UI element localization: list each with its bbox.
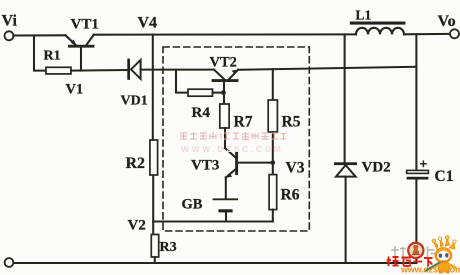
svg-text:VT2: VT2 [210, 55, 237, 71]
transistor VT3 [225, 148, 237, 199]
terminal Vi [5, 31, 14, 40]
resistor R4 [188, 89, 213, 96]
svg-text:WWW.DZSC.COM: WWW.DZSC.COM [181, 144, 284, 154]
wire top rail left [13, 34, 65, 36]
watermark pink center line1 [180, 132, 287, 140]
terminal ground left [5, 258, 14, 267]
svg-text:R6: R6 [281, 187, 300, 204]
watermark red text search [387, 257, 433, 267]
junction dot VT2 base [221, 90, 226, 95]
wire Vi drop to R1 [34, 36, 46, 71]
wire R3 to bottom rail [154, 257, 156, 263]
svg-text:V3: V3 [286, 160, 305, 177]
transistor VT2 [213, 70, 238, 93]
svg-text:V1: V1 [66, 82, 84, 98]
diode VD1 [127, 59, 140, 80]
svg-text:R7: R7 [234, 114, 253, 131]
wire bottom rail [13, 262, 416, 264]
resistor R2 [150, 140, 158, 175]
svg-text:R1: R1 [44, 49, 61, 64]
resistor R3 [151, 235, 158, 258]
resistor R7 [220, 104, 229, 128]
diode VD2 [334, 162, 357, 263]
wire VD2 drop from rail [344, 34, 346, 162]
svg-text:GB: GB [182, 197, 203, 213]
wire R7 to VT3 collector [224, 128, 226, 148]
dashed regulator box [163, 47, 309, 231]
svg-text:R5: R5 [282, 114, 301, 131]
wire top rail mid [94, 33, 356, 35]
wire node V2 horizontal [153, 220, 273, 222]
svg-text:VT3: VT3 [191, 158, 219, 174]
wire R5 to R6 [272, 132, 274, 175]
wire R6 bottom tick [272, 210, 274, 222]
watermark gray ghost text left [392, 246, 408, 259]
terminal Vo [450, 29, 459, 38]
svg-text:R4: R4 [192, 105, 211, 121]
wire VT3 base to divider [238, 162, 273, 164]
wire R4 to base dot [213, 92, 222, 94]
capacitor C1 [407, 161, 429, 263]
wire VT2 emitter to output node [238, 67, 416, 70]
wire R5 top lead [272, 69, 274, 100]
resistor R6 [269, 175, 277, 210]
wire node V4 vertical [152, 35, 154, 141]
wire output node drop [415, 34, 417, 170]
svg-text:VD2: VD2 [362, 160, 391, 176]
svg-text:C1: C1 [435, 168, 454, 185]
inductor L1 [350, 22, 406, 35]
watermark gray ghost text right [428, 246, 441, 258]
wire collector drop to R4 [176, 70, 188, 93]
wire base dot to R7 [223, 93, 225, 104]
wire top rail right [404, 33, 450, 35]
svg-text:Vo: Vo [438, 13, 456, 30]
watermark stamp circle [408, 243, 423, 258]
resistor R1 [46, 67, 71, 74]
svg-text:VD1: VD1 [121, 94, 148, 109]
wire R1 to VD1 [71, 69, 128, 72]
svg-text:VT1: VT1 [71, 17, 99, 33]
svg-text:L1: L1 [356, 8, 372, 23]
svg-text:V2: V2 [128, 218, 146, 234]
watermark mascot [426, 236, 456, 274]
transistor VT1 [66, 35, 94, 71]
wire VD1 to VT2 (through node V4 drop) [141, 69, 214, 71]
svg-text:R2: R2 [126, 155, 146, 172]
resistor R5 [268, 100, 277, 132]
junction dot divider tap [271, 160, 276, 165]
svg-text:Vi: Vi [2, 13, 18, 30]
svg-text:V4: V4 [138, 15, 158, 32]
battery GB [214, 199, 238, 221]
svg-text:R3: R3 [160, 240, 177, 255]
wire R2 to R3 [152, 175, 154, 235]
